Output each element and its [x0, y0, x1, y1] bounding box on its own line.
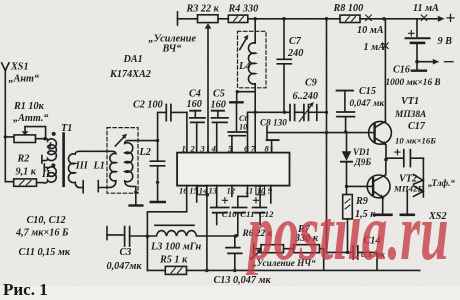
capacitor C3 0.047 left T-bar [107, 227, 124, 240]
variable capacitor C9 6..240 section 1 [290, 105, 304, 121]
svg-text:4: 4 [211, 143, 217, 153]
svg-text:DA1: DA1 [123, 54, 143, 65]
wire AGC vertical line [326, 19, 328, 253]
svg-text:„Атт.“: „Атт.“ [13, 113, 49, 124]
transformer T1 winding II [44, 167, 57, 183]
node junction VT1 collector [382, 17, 386, 21]
svg-text:R2: R2 [17, 154, 30, 165]
svg-text:16: 16 [179, 186, 188, 196]
chassis bar under C16 [412, 62, 426, 71]
node junction C1 stem [156, 181, 159, 184]
node junction C16 minus [415, 60, 419, 64]
wire pin 16 to ground bus [147, 195, 186, 270]
capacitor C14 0.1 [353, 246, 377, 270]
inductor L3 core bar [155, 224, 194, 226]
adjustable core arrow for L4 [240, 35, 249, 50]
svg-text:240: 240 [287, 48, 303, 59]
wire R1 wiper loop [25, 127, 46, 139]
T1 winding I tap T-bar [41, 155, 43, 163]
L1 bottom T-bar [97, 181, 99, 192]
node junction VD1/VT2 base [345, 185, 348, 188]
wire X52 lower contact to chassis [406, 191, 408, 214]
measuring break X 11mA [421, 15, 427, 21]
svg-text:L3 100 мГн: L3 100 мГн [150, 242, 202, 253]
capacitor C16 1000uF [406, 19, 430, 62]
capacitor C6 10 [228, 102, 246, 152]
svg-text:R4 330: R4 330 [228, 4, 259, 15]
capacitor C10 electrolytic [211, 208, 229, 225]
node junction VT1 emitter/C17/VT2 collector [384, 158, 388, 162]
resistor R5 1k [165, 266, 186, 274]
svg-text:С12: С12 [259, 209, 274, 219]
battery plus arrow [438, 16, 445, 22]
resistor R8 100 [340, 15, 360, 22]
phone jack X52 body line [422, 158, 424, 197]
svg-text:С17: С17 [408, 121, 426, 132]
antenna X51 [2, 63, 9, 77]
svg-text:Д9Б: Д9Б [354, 157, 372, 167]
resistor R4 330 [228, 15, 248, 22]
svg-text:9 В: 9 В [438, 36, 453, 47]
pin 14 highlight box [198, 186, 207, 195]
node junction C13/rail [233, 269, 237, 273]
svg-text:С10, С12: С10, С12 [27, 215, 66, 226]
svg-text:С14: С14 [364, 236, 381, 247]
capacitor C15 plates [337, 112, 354, 132]
svg-text:VD1: VD1 [353, 147, 370, 157]
node junction tank/pin7 [254, 111, 257, 114]
node junction pin14 stem [206, 193, 210, 197]
chassis bar under L2 [130, 204, 143, 206]
inductor L3 100mH [147, 231, 236, 236]
svg-text:R5 1 к: R5 1 к [159, 255, 188, 266]
wire VT2 emitter to chassis [382, 198, 384, 214]
node junction R9 bottom [346, 251, 349, 254]
svg-text:1000 мк×16 В: 1000 мк×16 В [386, 78, 441, 88]
adjustable core arrow for L1/L2 [115, 134, 127, 146]
transistor VT1 MP38A [369, 121, 392, 145]
inductor L1 [98, 151, 116, 187]
X52 contact upper [414, 175, 424, 185]
svg-text:С4: С4 [189, 89, 201, 100]
capacitor C12 electrolytic [253, 208, 267, 225]
capacitor C8 130 plate bar at pin 8 [267, 140, 279, 153]
svg-text:С11 0,15 мк: С11 0,15 мк [19, 247, 71, 258]
battery plus sign [447, 14, 454, 21]
transformer T1 winding III [68, 151, 83, 187]
measuring break X 10mA [366, 15, 372, 21]
wire R9 bottom line [327, 251, 353, 253]
resistor R1 10k attenuator pot [14, 135, 36, 143]
svg-text:С5: С5 [213, 89, 225, 100]
svg-text:С10: С10 [222, 209, 237, 219]
svg-text:L4: L4 [238, 61, 250, 72]
shield box with adjustable core for L4 [238, 31, 267, 88]
T1 polarity dot lower [51, 163, 55, 167]
C16 plus mark [409, 31, 415, 37]
IC DA1 K174XA2 body [177, 153, 289, 186]
IC top pin stems 1-8 [187, 147, 272, 153]
svg-text:С9: С9 [305, 78, 317, 89]
svg-text:6: 6 [244, 143, 249, 153]
T1 winding III bottom T-bar [82, 181, 84, 193]
battery minus arrow [417, 59, 453, 65]
node junction AGC/C8 line [325, 131, 328, 134]
node junction AGC/tank [325, 111, 328, 114]
chassis bar X52 [401, 214, 414, 217]
wire R9 to bottom line [347, 219, 349, 253]
node junction L3 right / C13 [234, 234, 238, 238]
svg-text:R8 100: R8 100 [333, 3, 364, 14]
svg-text:9: 9 [268, 186, 273, 196]
svg-text:С8 130: С8 130 [260, 118, 287, 128]
svg-text:3: 3 [200, 143, 206, 153]
resistor R6 22k volume pot [261, 245, 284, 253]
inductor L2 [125, 141, 136, 205]
svg-text:L2: L2 [139, 147, 151, 158]
capacitor C1 240 [150, 141, 164, 201]
node junction R1 wiper/output [43, 137, 46, 140]
wire R7 to rail [320, 249, 324, 270]
svg-text:10: 10 [239, 123, 247, 132]
shield box with adjustable core for L1/L2 [107, 128, 138, 194]
svg-text:13: 13 [209, 186, 218, 196]
svg-text:К174ХА2: К174ХА2 [109, 69, 151, 80]
R6 left T-bar [254, 244, 261, 254]
wire C2 to pin 1 [186, 112, 188, 152]
wire top rail left [178, 18, 198, 20]
svg-text:5: 5 [228, 143, 233, 153]
bottom rail [147, 269, 419, 271]
chassis bar under L4 box [230, 101, 242, 103]
node junction C3/L3/ground bus [146, 234, 150, 238]
wire L4 from rail [254, 19, 256, 43]
svg-text:4,7 мк×16 Б: 4,7 мк×16 Б [15, 228, 69, 239]
svg-text:10 мА: 10 мА [357, 25, 384, 36]
wire VT2 base [347, 185, 374, 187]
IC bottom pin stems 9-16 [187, 186, 271, 208]
svg-text:10: 10 [257, 186, 266, 196]
C9 right T-bar [317, 105, 327, 121]
svg-text:II: II [41, 169, 51, 180]
wire VT1 emitter [385, 145, 387, 160]
R3 left terminal T-bar [177, 12, 179, 25]
R3 wiper arrow [205, 23, 212, 152]
node junction AGC line branch [325, 17, 329, 21]
wire R2 to T1 winding II [37, 182, 44, 184]
svg-text:11: 11 [245, 186, 253, 196]
node junction C15/base line [344, 130, 347, 133]
inductor L4 [248, 43, 255, 84]
resistor R7 330k [294, 245, 320, 253]
svg-text:С3: С3 [120, 247, 132, 258]
resistor R9 1.5k [343, 195, 353, 219]
C10 plus mark [222, 198, 227, 203]
svg-text:XS1: XS1 [10, 62, 29, 73]
svg-text:МП42Б: МП42Б [393, 184, 423, 194]
svg-text:10 мк×16Б: 10 мк×16Б [395, 136, 436, 146]
svg-text:330 к: 330 к [294, 233, 319, 244]
svg-text:„Тлф.“: „Тлф.“ [428, 178, 455, 188]
svg-text:160: 160 [187, 99, 202, 110]
C9 variable arrow [299, 102, 314, 122]
pin 10 highlight box [256, 186, 265, 195]
node junction pin14/rail [205, 269, 209, 273]
capacitor C15 0.047 top T-bar [337, 91, 353, 112]
svg-text:Т1: Т1 [61, 123, 72, 134]
wire VT2 collector up [385, 160, 387, 175]
svg-text:14: 14 [199, 186, 208, 196]
svg-text:С16: С16 [393, 65, 411, 76]
C12 plus mark [253, 198, 258, 203]
svg-text:2: 2 [190, 143, 196, 153]
capacitor C4 160 [190, 111, 205, 153]
wire VT1 collector [384, 19, 386, 122]
wire AGC to VT1 base [267, 132, 375, 134]
transformer T1 winding I [42, 139, 56, 161]
C8 left T-bar [266, 126, 268, 139]
X52 contact lower [414, 186, 424, 197]
node junction L4 ground branch [236, 90, 239, 93]
svg-text:8: 8 [265, 143, 270, 153]
R1 wiper arrow [22, 127, 29, 136]
resistor R3 22k gain pot [198, 15, 219, 23]
svg-text:ВЧ“: ВЧ“ [162, 44, 182, 55]
capacitor C5 160 [212, 111, 229, 153]
wire L2 top to C2 node [128, 140, 158, 142]
svg-text:0,047 мк: 0,047 мк [350, 99, 385, 109]
T1 polarity dot upper [52, 132, 56, 136]
wire R4 to R8 [248, 18, 340, 20]
T1 core [62, 134, 65, 186]
wire pin 14 down to rail [206, 195, 208, 270]
svg-text:R3 22 к: R3 22 к [186, 4, 220, 15]
wire R3 to R4 [218, 18, 228, 20]
svg-text:„Ант“: „Ант“ [9, 74, 40, 85]
chassis bar VT2 emitter [374, 214, 391, 217]
capacitor C7 240 [277, 19, 291, 113]
svg-text:1,5 к: 1,5 к [355, 209, 376, 220]
svg-text:III: III [75, 161, 89, 172]
node junction C1/C2/L2 [156, 139, 159, 142]
svg-text:12: 12 [227, 186, 236, 196]
svg-text:7: 7 [251, 143, 256, 153]
capacitor C11 [232, 196, 247, 235]
C17 plus mark [395, 150, 400, 155]
svg-text:0,1 мк: 0,1 мк [361, 249, 385, 259]
svg-text:11 мА: 11 мА [413, 3, 439, 14]
capacitor C17 10uF [386, 150, 423, 167]
transistor VT2 MP42B [367, 175, 390, 199]
svg-text:С15: С15 [359, 86, 376, 97]
svg-text:„Усиление НЧ“: „Усиление НЧ“ [252, 258, 316, 268]
wire T1 III top to L1 [79, 150, 112, 152]
measuring break X 1mA [383, 43, 389, 49]
svg-text:L1: L1 [93, 161, 105, 172]
node junction antenna/R1 [4, 135, 7, 138]
figure caption Ris.1 (cut off) [3, 280, 48, 300]
wire L4 bottom [237, 84, 256, 113]
capacitor C3 plates [125, 227, 148, 246]
svg-text:9,1 к: 9,1 к [16, 167, 37, 178]
svg-text:15: 15 [189, 186, 198, 196]
node junction L4 branch [253, 17, 257, 21]
variable capacitor C9 section 2 [304, 105, 317, 121]
svg-text:R6 22 к: R6 22 к [242, 229, 273, 239]
diode VD1 D9B [341, 132, 352, 195]
svg-text:С11: С11 [240, 209, 254, 219]
node junction C7 bottom [283, 111, 286, 114]
resistor R2 9.1k [14, 179, 37, 186]
wire R6 to R7 [284, 248, 294, 250]
wire R1 to T1 winding I [36, 138, 47, 140]
svg-text:С13 0,047 мк: С13 0,047 мк [214, 275, 272, 286]
svg-text:160: 160 [211, 100, 226, 111]
svg-text:0,047мк: 0,047мк [107, 261, 143, 272]
wire to R1 [5, 136, 14, 138]
svg-text:МП38А: МП38А [394, 110, 426, 120]
node junction C7 branch [282, 17, 286, 21]
svg-text:6..240: 6..240 [293, 91, 318, 102]
chassis bar under C1 [151, 201, 165, 203]
svg-text:ХS2: ХS2 [428, 211, 447, 222]
svg-text:VT1: VT1 [401, 96, 419, 107]
wire tank to pin 7 [254, 112, 256, 152]
svg-text:R1 10к: R1 10к [13, 101, 45, 112]
svg-text:С2 100: С2 100 [133, 100, 163, 111]
capacitor C2 100 [158, 105, 187, 141]
R6 wiper arrow [251, 249, 262, 258]
wire antenna down left side [5, 77, 13, 182]
wire R8 to battery plus [360, 18, 437, 20]
svg-text:1: 1 [182, 143, 186, 153]
wire tank line to pin 6 [248, 112, 291, 152]
node junction L2 bottom [134, 191, 137, 194]
T1 winding II tap T-bar [44, 164, 47, 171]
svg-text:С7: С7 [289, 36, 302, 47]
svg-text:1 мА: 1 мА [364, 42, 386, 53]
svg-text:R9: R9 [355, 196, 368, 207]
capacitor C13 0.047 [226, 236, 242, 271]
